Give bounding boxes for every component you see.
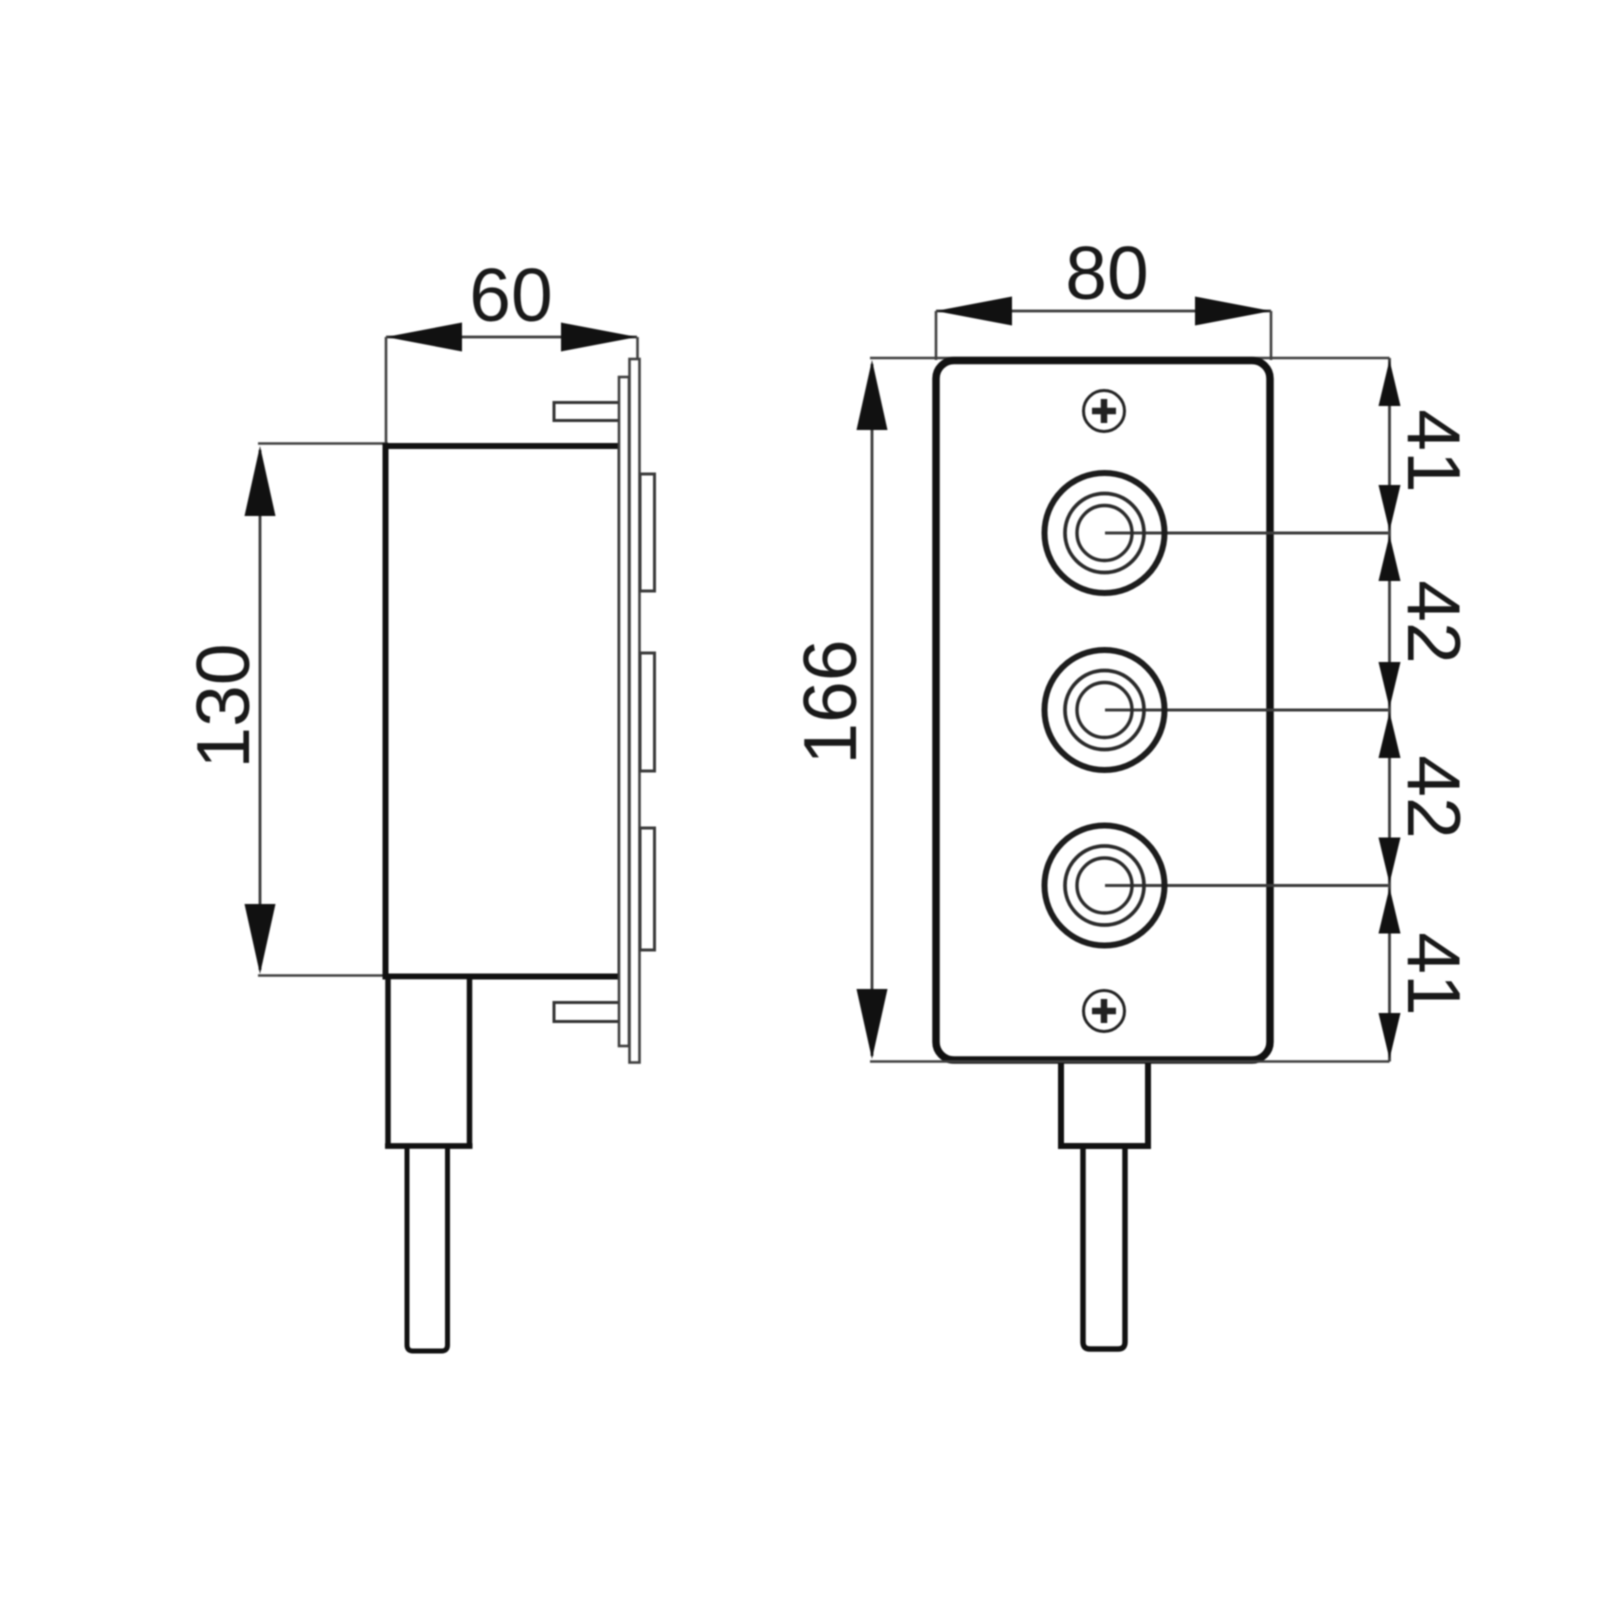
svg-text:80: 80: [1065, 231, 1148, 315]
svg-text:41: 41: [1392, 932, 1476, 1015]
svg-text:41: 41: [1392, 409, 1476, 492]
svg-text:60: 60: [469, 253, 552, 337]
svg-text:42: 42: [1392, 580, 1476, 663]
svg-text:166: 166: [788, 639, 872, 764]
svg-text:130: 130: [181, 643, 265, 768]
svg-text:42: 42: [1392, 755, 1476, 838]
